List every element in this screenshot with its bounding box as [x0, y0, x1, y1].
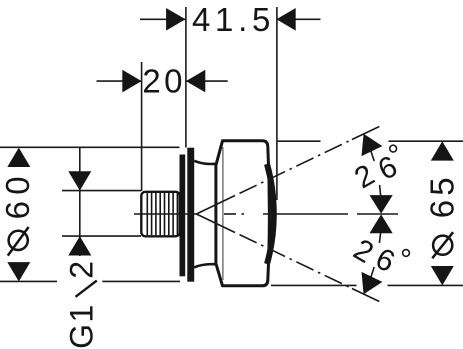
svg-text:65: 65 [423, 173, 460, 218]
svg-text:G: G [63, 324, 99, 349]
svg-text:41.5: 41.5 [192, 1, 275, 38]
svg-text:60: 60 [0, 170, 36, 219]
svg-text:2: 2 [63, 261, 99, 279]
svg-text:1: 1 [63, 305, 99, 323]
svg-text:20: 20 [142, 63, 186, 100]
